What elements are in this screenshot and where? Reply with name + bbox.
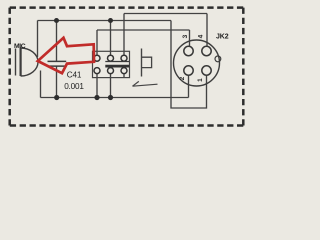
switch thick bar [105,65,129,68]
wire net A to jack pin 1 [171,21,207,109]
svg-text:4: 4 [198,34,205,38]
wire switch col1 bottom lead [96,74,98,98]
switch S (PTT) body [93,51,130,77]
microphone MIC [16,48,39,76]
svg-text:2: 2 [179,76,186,80]
svg-text:1: 1 [197,78,204,82]
jack pin 3 [184,46,193,55]
wire jack pin 2 lead [188,76,190,98]
jack keyway notch [215,56,221,62]
node junction dot net A / switch col2 [108,18,113,23]
svg-text:3: 3 [182,34,189,38]
wire jack pin 4 lead [206,14,208,47]
wire switch col2 bottom lead [110,74,112,98]
wire switch col3 top lead [123,14,125,56]
svg-text:C41: C41 [67,70,82,79]
wire net D bottom horizontal [41,97,189,99]
capacitor C41 [48,61,67,66]
jack JK2 body [174,40,220,86]
wire switch col2 top lead [110,21,112,56]
wire net A top horizontal [38,20,172,22]
plug symbol [142,49,152,77]
callout arrow (red) [38,38,94,73]
insertion arrow [133,81,158,86]
node junction dot net A / C41 [54,18,59,23]
svg-text:MIC: MIC [14,43,26,50]
dashed enclosure border [10,8,244,126]
wire mic top lead [37,21,39,58]
jack pin 2 [184,66,193,75]
svg-text:JK2: JK2 [216,34,229,41]
wire switch col1 top lead [96,30,98,55]
wire net B horizontal [124,13,207,15]
node junction dot net D / C41 [54,95,59,100]
switch thin bar [105,61,129,63]
jack pin 1 [202,66,211,75]
wire jack pin 3 lead [189,30,191,47]
jack pin 4 [202,46,211,55]
switch contacts [94,55,127,73]
wire C41 bottom lead [56,66,58,97]
wire mic bottom lead [40,71,42,98]
svg-text:0.001: 0.001 [64,82,84,91]
wire C41 top lead [56,21,58,61]
node junction dot net D / switch col1 [94,95,99,100]
wire switch col3 bottom stub [123,74,125,78]
node junction dot net D / switch col2 [108,95,113,100]
wire net C horizontal [97,29,190,31]
